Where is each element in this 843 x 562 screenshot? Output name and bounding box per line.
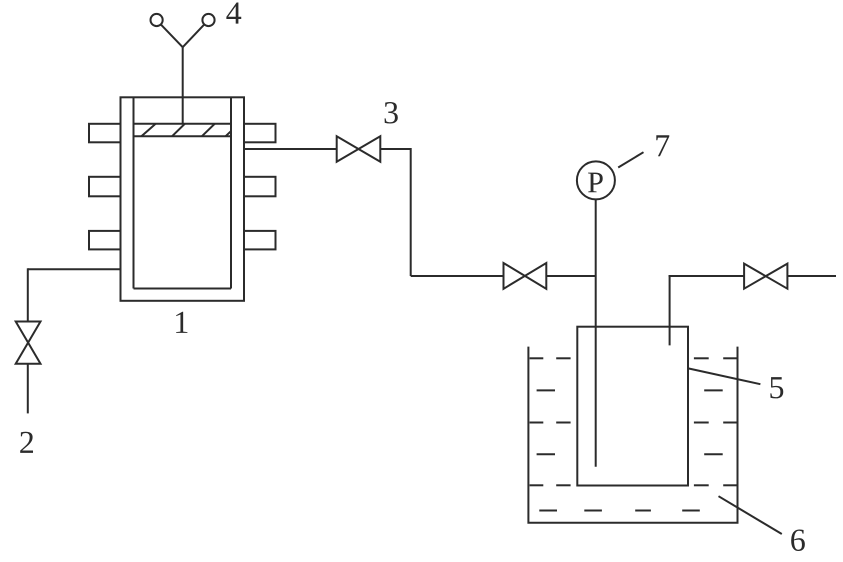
label 6	[791, 530, 805, 552]
wire: right tube vertical into flask	[669, 275, 671, 345]
wire: vertical drop	[410, 148, 412, 276]
wire: horizontal to mid valve	[411, 275, 504, 277]
water level dashes row3 left	[530, 422, 544, 424]
leader line to label 7	[618, 152, 643, 167]
electrode left branch	[161, 24, 183, 47]
leader line to label 5	[689, 369, 761, 385]
leader line to label 6	[719, 496, 782, 534]
valve mid	[504, 263, 547, 289]
label 2	[20, 432, 33, 453]
vessel 1 hatched lid top line	[134, 123, 232, 125]
water level dashes row1 left	[530, 357, 544, 359]
wire: valve 3 to corner	[380, 148, 410, 150]
hatch diagonals	[141, 124, 238, 137]
wire: below valve 2	[27, 364, 29, 414]
label 1	[176, 312, 187, 333]
water level dash row2 right	[704, 389, 723, 391]
pressure gauge circle	[577, 161, 615, 199]
label 3	[385, 102, 398, 124]
right fin top	[244, 124, 276, 143]
water level dash row4 right	[704, 453, 723, 455]
electrode right branch	[183, 24, 205, 47]
right fin middle	[244, 177, 276, 197]
water bath 6 walls	[528, 347, 737, 523]
water level dashes row5 right	[694, 484, 709, 486]
vessel 1 inner liner bottom	[134, 288, 232, 290]
water level dash row2 left	[537, 389, 555, 391]
vessel 1 hatched lid bottom line	[134, 135, 232, 137]
valve right	[744, 264, 787, 289]
water level dashes row5 left	[530, 484, 544, 486]
flask 5	[577, 327, 688, 486]
label 4	[226, 3, 241, 24]
water bottom dashes	[539, 510, 557, 512]
wire: vessel to valve 3	[244, 148, 337, 150]
water level dash row4 left	[537, 453, 555, 455]
wire: left outlet from vessel	[28, 268, 122, 270]
valve V3	[337, 136, 381, 162]
electrode terminal right circle	[202, 14, 214, 26]
wire: mid valve to gauge tee	[546, 275, 595, 277]
pressure gauge letter P	[588, 173, 603, 193]
pressure gauge U7 stem	[595, 199, 597, 466]
wire: right horizontal to right valve	[669, 275, 745, 277]
wire: left vertical to valve 2	[27, 268, 29, 321]
water level dashes row3 right	[694, 422, 709, 424]
valve V2 vertical	[16, 322, 41, 364]
right fin bottom	[244, 231, 276, 250]
label 5	[770, 377, 783, 398]
vessel 1 inner liner left wall	[133, 97, 135, 288]
electrode terminal left circle	[151, 14, 163, 26]
water level dashes row1 right	[694, 357, 709, 359]
left fin middle	[89, 177, 121, 197]
vessel 1 inner liner right wall	[230, 97, 232, 288]
left fin top	[89, 124, 121, 143]
wire: right valve outlet	[787, 275, 836, 277]
left fin bottom	[89, 231, 121, 250]
electrode rod	[182, 47, 184, 124]
vessel 1 outer shell	[121, 97, 245, 300]
label 7	[656, 135, 669, 156]
